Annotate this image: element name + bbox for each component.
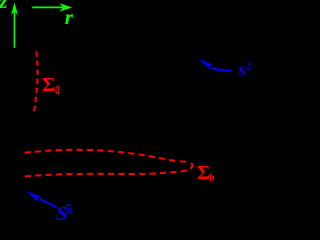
wire: z-axis shaft [14, 10, 16, 48]
z axis arrow (vertical, green) [14, 10, 16, 48]
z-axis arrowhead [11, 2, 18, 15]
blue pointer arrow to lower-left region [40, 199, 57, 207]
dashed surface Sigma_b upper branch (red) [25, 150, 189, 162]
svg-text:5: 5 [66, 201, 73, 216]
r axis arrow (horizontal, green) [32, 6, 63, 8]
svg-text:Σ: Σ [42, 74, 55, 96]
blue arrowhead (lower) [26, 191, 42, 202]
svg-text:S: S [238, 64, 246, 79]
blue arrowhead (upper) [198, 59, 213, 70]
svg-text:2: 2 [246, 61, 252, 73]
vertex hook of Sigma_b [190, 163, 192, 169]
dashed surface Sigma_a (red, near z-axis) [34, 51, 38, 113]
svg-text:b: b [209, 171, 214, 185]
wire: r-axis shaft [32, 6, 63, 8]
svg-text:a: a [55, 78, 60, 98]
dashed surface Sigma_b lower branch (red) [25, 170, 188, 176]
r-axis arrowhead [60, 3, 73, 11]
svg-text:r: r [65, 5, 74, 29]
blue pointer arrow to upper-right region [212, 69, 232, 71]
svg-text:z: z [0, 0, 8, 13]
